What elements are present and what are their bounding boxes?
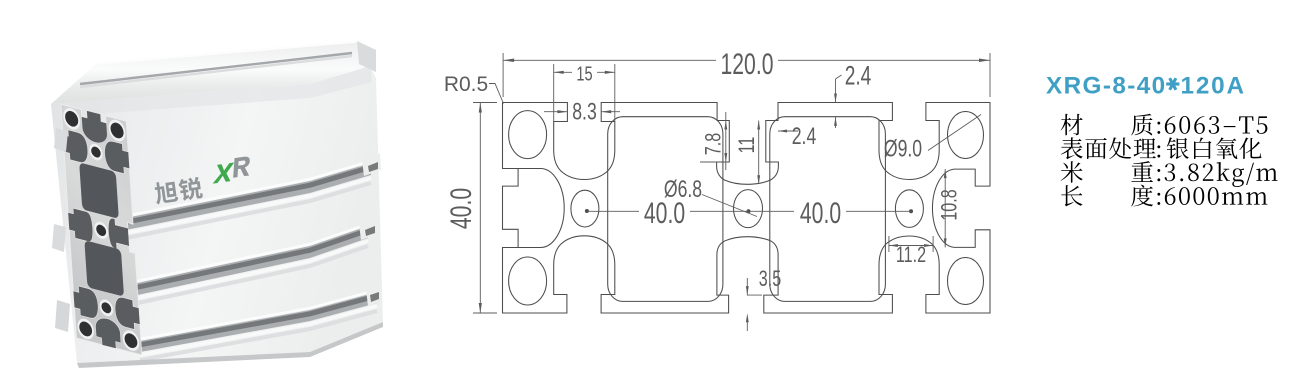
dimension diam 9.0 leader	[928, 115, 981, 151]
dimension 2.4 recess wall	[778, 130, 798, 132]
T-slot groove band 2	[133, 226, 368, 296]
svg-text:120.0: 120.0	[721, 49, 774, 81]
dimension R0.5 leader	[489, 84, 504, 104]
groove end notches at cut end	[362, 153, 381, 176]
cavity chamber 2	[770, 117, 886, 302]
svg-text:11: 11	[734, 137, 759, 154]
cavity chamber 1	[608, 117, 723, 302]
center hole 1	[571, 190, 599, 227]
dimension diam 6.8 leader	[702, 195, 757, 217]
corner hole bottom-right	[948, 258, 984, 305]
svg-text:40.0: 40.0	[800, 198, 841, 230]
svg-text:3.5: 3.5	[759, 266, 782, 291]
T-slot groove band 1	[126, 163, 371, 230]
dimension 40.0 between hole1 hole2	[587, 210, 749, 212]
dimension 10.8	[944, 169, 946, 247]
svg-text:7.8: 7.8	[701, 133, 726, 155]
corner hole top-left	[509, 111, 547, 159]
logo 旭锐 XR	[152, 156, 256, 205]
svg-text:2.4: 2.4	[792, 122, 817, 150]
top face groove	[80, 53, 352, 84]
center hole 3	[895, 190, 923, 228]
corner hole top-right	[948, 112, 984, 159]
end cross-section face	[61, 104, 142, 355]
svg-text:10.8: 10.8	[937, 189, 962, 220]
svg-text:120A: 120A	[1181, 73, 1246, 100]
section voids	[104, 139, 130, 174]
dimension 40.0 between hole2 hole3	[749, 210, 912, 212]
asterisk star	[1166, 77, 1179, 90]
top face	[51, 41, 376, 104]
svg-text:R0.5: R0.5	[444, 73, 488, 96]
svg-text:40.0: 40.0	[446, 188, 478, 229]
front face	[51, 66, 383, 363]
dimension 11	[758, 121, 760, 185]
dimension 11.2	[889, 236, 933, 252]
svg-text:15: 15	[576, 62, 592, 85]
svg-text:8.3: 8.3	[572, 98, 597, 126]
shading under top edge	[51, 66, 372, 117]
svg-text:XRG-8-40: XRG-8-40	[1046, 73, 1167, 100]
dimension 120.0 top	[503, 53, 990, 97]
dimension 3.5	[747, 278, 762, 331]
profile outline	[503, 103, 991, 314]
dimension 8.3	[544, 111, 620, 113]
left slot fan cavity	[518, 169, 564, 248]
dimension 40.0 left	[473, 103, 497, 314]
center hole 2	[734, 190, 763, 228]
svg-text:11.2: 11.2	[896, 242, 926, 267]
svg-text:2.4: 2.4	[845, 60, 872, 90]
svg-text:40.0: 40.0	[644, 198, 685, 230]
spec text	[1061, 114, 1083, 136]
aluminum profile photo	[51, 41, 383, 368]
T-slot groove band 3	[140, 292, 377, 352]
left silhouette slot lips	[54, 128, 68, 152]
dimension 7.8	[700, 112, 726, 170]
hole center dots	[585, 209, 589, 213]
dimension 15	[554, 64, 615, 122]
corner hole bottom-left	[509, 257, 547, 305]
svg-text:Ø9.0: Ø9.0	[884, 135, 922, 163]
bottom edge	[77, 322, 383, 368]
dimension 2.4 top	[836, 75, 842, 128]
right end sliver	[357, 41, 376, 72]
